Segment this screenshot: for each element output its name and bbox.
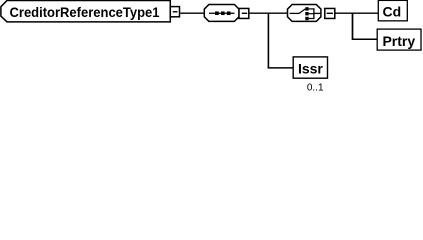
wire to Prtry box (352, 38, 378, 40)
svg-text:Prtry: Prtry (382, 33, 415, 49)
svg-text:CreditorReferenceType1: CreditorReferenceType1 (10, 4, 160, 20)
svg-text:0..1: 0..1 (307, 82, 324, 93)
element box Prtry (377, 29, 421, 50)
wire sequence to choice (250, 12, 289, 14)
element box Issr (293, 57, 327, 78)
expand handle (after sequence) (239, 8, 249, 18)
wire junction down to Prtry (352, 13, 354, 39)
wire handle to sequence (180, 12, 205, 14)
expand handle (after choice) (325, 8, 335, 18)
svg-text:Cd: Cd (382, 3, 401, 19)
wire choice to Cd (336, 12, 379, 14)
expand handle (after CreditorReferenceType1) (170, 7, 179, 17)
choice compositor (288, 5, 321, 22)
svg-text:Issr: Issr (298, 61, 323, 77)
wire to Issr box (268, 67, 294, 69)
element box Cd (378, 0, 407, 20)
wire junction down to Issr (267, 13, 269, 68)
element box CreditorReferenceType1 (1, 0, 170, 21)
sequence compositor (204, 5, 239, 22)
